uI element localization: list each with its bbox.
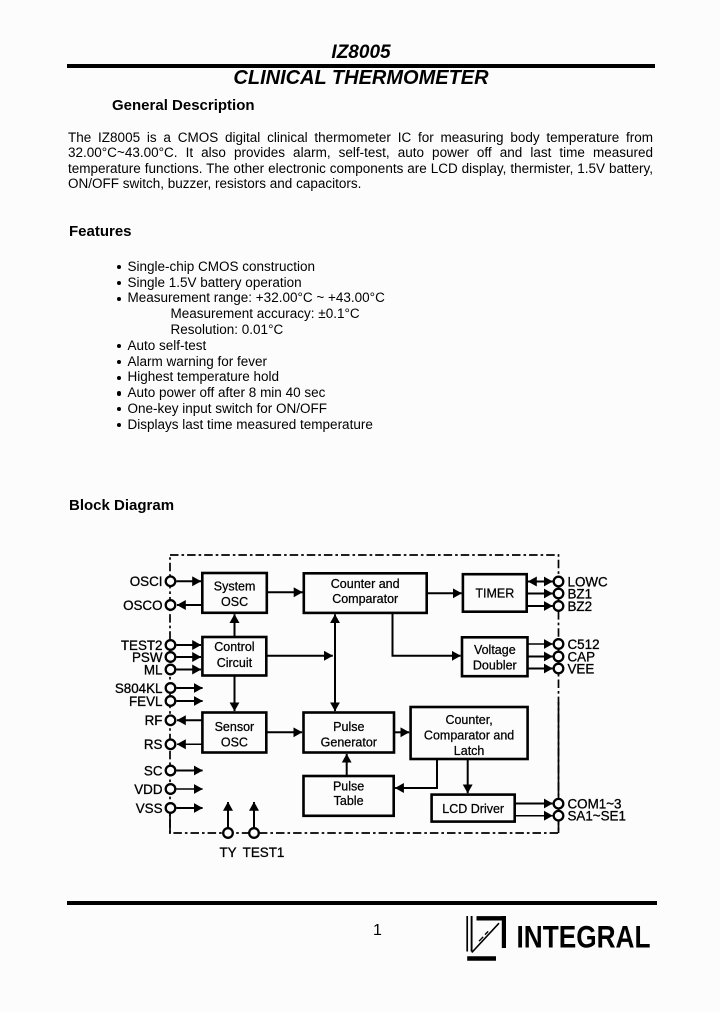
rule under title — [67, 64, 655, 68]
svg-text:Sensor: Sensor — [215, 720, 255, 734]
block System OSC — [202, 573, 266, 613]
wire Voltage Doubler to C512 — [528, 643, 553, 645]
svg-text:OSC: OSC — [221, 595, 248, 609]
block Pulse Generator — [304, 713, 395, 753]
wire Counter and Comparator to TIMER — [427, 592, 462, 594]
port S804KL — [115, 681, 175, 696]
port FEVL — [129, 694, 175, 709]
block LCD Driver — [432, 795, 515, 822]
chip boundary (dashed) — [170, 555, 559, 833]
svg-text:OSCI: OSCI — [130, 574, 163, 589]
wire TIMER to BZ2 — [527, 605, 553, 607]
port ML — [144, 662, 175, 677]
wire Control Circuit to Sensor OSC — [234, 676, 236, 712]
svg-text:VEE: VEE — [568, 661, 595, 676]
wire LCD Driver to COM1~3 — [515, 803, 553, 805]
page number 1 — [350, 921, 405, 940]
svg-text:TEST1: TEST1 — [243, 845, 285, 860]
port VEE — [554, 661, 595, 676]
wire Sensor OSC to RS — [177, 743, 202, 745]
svg-text:OSCO: OSCO — [123, 598, 162, 613]
block Voltage Doubler — [462, 637, 528, 676]
wire Pulse Generator to Counter Comparator and Latch — [394, 731, 409, 733]
svg-text:VSS: VSS — [136, 801, 163, 816]
block TIMER — [463, 574, 527, 612]
wire Counter and Comparator to Voltage Doubler — [393, 613, 461, 656]
heading Features — [69, 223, 132, 241]
wire TEST2 to Control Circuit — [177, 644, 202, 646]
port PSW — [132, 650, 175, 665]
heading Block Diagram — [69, 497, 174, 515]
wire Voltage Doubler to VEE — [528, 668, 553, 670]
port VSS — [136, 801, 176, 816]
wire OSCI to System OSC — [177, 580, 202, 582]
boundary solid segment lower right edge — [558, 702, 560, 833]
port COM1~3 — [554, 797, 622, 812]
subtitle CLINICAL THERMOMETER — [0, 66, 720, 90]
footer rule — [67, 901, 657, 904]
svg-text:Latch: Latch — [454, 744, 485, 758]
wire TIMER to BZ1 — [527, 593, 553, 595]
wire Control Circuit to center node — [266, 655, 333, 657]
block Counter and Comparator — [304, 573, 427, 613]
INTEGRAL logo mark — [467, 916, 506, 959]
svg-text:LCD Driver: LCD Driver — [442, 802, 504, 816]
port SC — [144, 763, 175, 778]
svg-text:RF: RF — [145, 713, 163, 728]
wire TY stub up — [227, 802, 229, 828]
svg-text:Pulse: Pulse — [333, 779, 364, 793]
svg-text:RS: RS — [144, 737, 163, 752]
wire FEVL input stub — [177, 700, 203, 702]
svg-text:Circuit: Circuit — [217, 656, 253, 670]
svg-text:Comparator: Comparator — [332, 592, 398, 606]
svg-text:Comparator and: Comparator and — [424, 729, 514, 743]
port LOWC — [554, 574, 608, 589]
wire TIMER to LOWC (bidirectional) — [528, 581, 553, 583]
svg-text:TY: TY — [219, 845, 236, 860]
wire System OSC to Counter and Comparator — [267, 591, 303, 593]
wire ML to Control Circuit — [177, 669, 202, 671]
svg-text:Doubler: Doubler — [473, 658, 517, 672]
port TEST2 — [121, 638, 175, 653]
svg-text:SA1~SE1: SA1~SE1 — [568, 809, 626, 824]
port OSCI — [130, 574, 176, 589]
svg-text:Control: Control — [214, 640, 254, 654]
port CAP — [554, 649, 595, 664]
wire Counter Comparator and Latch to LCD Driver — [467, 759, 469, 793]
title IZ8005 — [0, 42, 720, 65]
port RF — [145, 713, 176, 728]
wire Sensor OSC to RF — [177, 719, 202, 721]
svg-text:Pulse: Pulse — [333, 720, 364, 734]
svg-text:Counter,: Counter, — [445, 713, 492, 727]
svg-text:System: System — [214, 579, 256, 593]
wire Voltage Doubler to CAP — [528, 656, 553, 658]
wire PSW to Control Circuit — [177, 656, 202, 658]
port OSCO — [123, 598, 175, 613]
block Sensor OSC — [202, 713, 266, 753]
wire VDD input stub — [177, 788, 203, 790]
port SA1~SE1 — [554, 809, 626, 824]
port VDD — [134, 782, 175, 797]
port TEST1 — [243, 828, 285, 860]
svg-text:Generator: Generator — [321, 735, 377, 749]
port C512 — [554, 637, 600, 652]
svg-text:INTEGRAL: INTEGRAL — [517, 919, 651, 955]
block Control Circuit — [202, 637, 266, 676]
svg-text:TIMER: TIMER — [475, 586, 514, 600]
port RS — [144, 737, 175, 752]
port BZ2 — [554, 599, 592, 614]
boundary solid segment lower left edge — [169, 813, 171, 834]
wire System OSC to OSCO — [177, 604, 202, 606]
svg-text:Table: Table — [334, 794, 364, 808]
wire Control Circuit to System OSC — [234, 614, 236, 637]
wire LCD Driver to SA1~SE1 — [515, 815, 553, 817]
svg-text:VDD: VDD — [134, 782, 163, 797]
wire TEST1 stub up — [253, 802, 255, 828]
heading General Description — [112, 97, 255, 115]
svg-text:SC: SC — [144, 763, 163, 778]
wire SC input stub — [177, 770, 203, 772]
wire Counter Comparator and Latch to Pulse Table — [395, 759, 437, 788]
svg-text:Voltage: Voltage — [474, 643, 516, 657]
general description paragraph — [68, 130, 653, 191]
svg-text:BZ2: BZ2 — [568, 599, 593, 614]
wire VSS input stub — [177, 807, 203, 809]
port TY — [219, 828, 236, 860]
svg-text:FEVL: FEVL — [129, 694, 163, 709]
wire Counter and Comparator to Pulse Generator (bidirectional) — [334, 614, 336, 711]
block Counter Comparator and Latch — [411, 707, 528, 759]
wire S804KL input stub — [177, 687, 203, 689]
wire Pulse Table to Pulse Generator — [346, 754, 348, 776]
port BZ1 — [554, 586, 592, 601]
block Pulse Table — [304, 776, 394, 816]
svg-text:Counter and: Counter and — [331, 577, 400, 591]
svg-text:ML: ML — [144, 662, 163, 677]
features bullet list — [117, 259, 385, 433]
svg-text:OSC: OSC — [221, 735, 248, 749]
wire Sensor OSC to Pulse Generator — [266, 731, 302, 733]
